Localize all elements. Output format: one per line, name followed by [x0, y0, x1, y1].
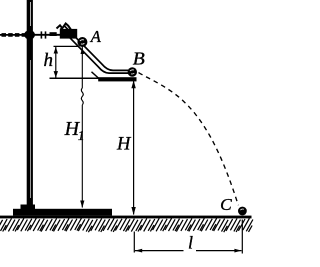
svg-text:B: B — [133, 49, 145, 69]
svg-text:h: h — [44, 50, 54, 71]
svg-text:1: 1 — [78, 128, 85, 143]
svg-text:A: A — [90, 27, 102, 46]
svg-text:C: C — [220, 195, 233, 214]
svg-text:H: H — [116, 135, 132, 155]
svg-text:l: l — [188, 233, 193, 253]
